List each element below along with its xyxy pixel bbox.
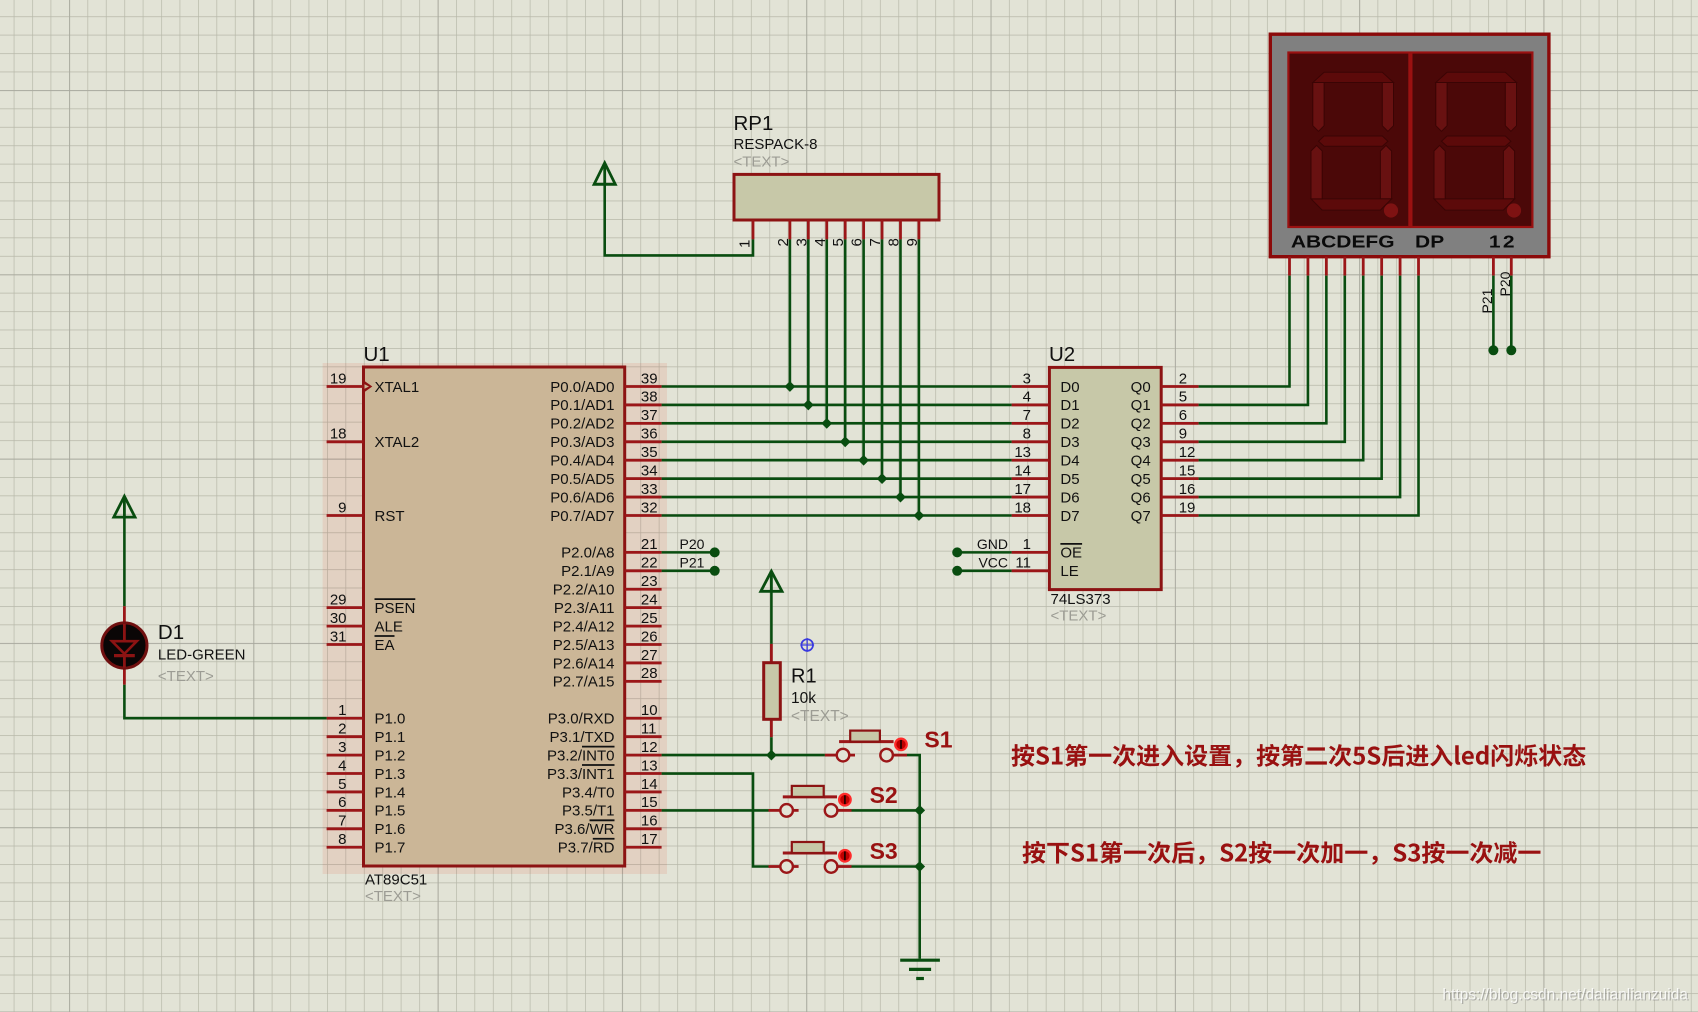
display pin E [1362,257,1365,276]
svg-text:1: 1 [737,240,754,248]
U2 pin 16 Q6 [1131,481,1199,507]
svg-text:GND: GND [977,536,1008,552]
svg-text:RESPACK-8: RESPACK-8 [734,136,818,153]
U1 pin 10 P3.0/RXD [548,702,662,728]
junction P0.6 [895,492,906,503]
U1 pin 19 XTAL1 [327,370,420,396]
svg-text:5: 5 [1179,389,1187,406]
svg-text:P1.2: P1.2 [375,747,406,764]
U2 pin 5 Q1 [1131,389,1199,415]
svg-text:18: 18 [1014,499,1031,516]
U1 pin 37 P0.2/AD2 [550,407,661,433]
svg-text:3: 3 [338,739,346,756]
svg-text:7: 7 [338,813,346,830]
svg-text:<TEXT>: <TEXT> [1051,608,1107,625]
svg-text:24: 24 [641,591,658,608]
wire U2 Q7 to display segment [1199,276,1419,516]
U2 pin 14 D5 [1012,462,1080,488]
U1 pin 30 ALE [327,610,403,636]
svg-text:1: 1 [338,702,346,719]
junction S3/rail [914,861,925,872]
wire U2 Q1 to display segment [1199,276,1308,405]
svg-text:D6: D6 [1060,489,1079,506]
svg-text:Q0: Q0 [1131,379,1151,396]
U1 pin 7 P1.6 [327,813,406,839]
svg-text:U1: U1 [364,343,390,366]
U2 pin 19 Q7 [1131,499,1199,525]
svg-text:U2: U2 [1049,343,1075,366]
U1 pin 16 P3.6/WR [554,813,661,839]
svg-text:11: 11 [1015,555,1031,572]
wire RP1 pin 6 to P0.4 bus [862,239,865,460]
svg-text:Q4: Q4 [1131,453,1151,470]
net GND terminal to U2 OE [952,536,1011,557]
svg-text:PSEN: PSEN [375,600,416,617]
svg-text:P3.1/TXD: P3.1/TXD [549,729,614,746]
wire power to D1 [123,517,126,606]
U2 pin 13 D4 [1012,444,1080,470]
svg-text:3: 3 [1023,370,1031,387]
svg-text:S1: S1 [924,727,952,753]
svg-text:<TEXT>: <TEXT> [365,888,421,905]
display pin F [1380,257,1383,276]
wire D1 to U1 P1.0 [124,685,326,719]
svg-text:P20: P20 [680,536,705,552]
svg-text:<TEXT>: <TEXT> [734,154,790,171]
wire U1 P3.3 to S3 [662,774,769,867]
wire S1 to ground rail [907,755,920,959]
LED D1 LED-GREEN [102,623,147,668]
svg-text:12: 12 [1179,444,1196,461]
U2 pin 18 D7 [1012,499,1080,525]
origin marker [800,638,814,652]
svg-text:Q5: Q5 [1131,471,1151,488]
U1 pin 23 P2.2/A10 [553,573,662,599]
net P21 wire at display [1479,276,1499,356]
svg-text:6: 6 [338,794,346,811]
svg-text:S3: S3 [870,838,898,864]
svg-text:17: 17 [641,831,658,848]
svg-text:6: 6 [1179,407,1187,424]
U1 pin 8 P1.7 [327,831,406,857]
display digit 1 [1288,53,1409,228]
wire RP1 pin 8 to P0.6 bus [899,239,902,497]
7-segment display body [1270,34,1549,257]
U1 pin 9 RST [327,499,405,525]
wire P0.5 from U1 to U2 D5 [662,477,1012,480]
svg-text:DP: DP [1415,233,1444,252]
U1 pin 5 P1.4 [327,776,406,802]
svg-text:27: 27 [641,647,658,664]
U1 pin 15 P3.5/T1 [562,794,662,820]
svg-text:P3.3/INT1: P3.3/INT1 [547,766,615,783]
junction S2/rail [914,805,925,816]
wire P0.3 from U1 to U2 D3 [662,440,1012,443]
ground [900,960,940,978]
svg-text:P2.5/A13: P2.5/A13 [553,637,615,654]
svg-text:P20: P20 [1497,271,1513,296]
junction P0.5 [877,473,888,484]
display pin D [1343,257,1346,276]
wire U2 Q6 to display segment [1199,276,1400,497]
U1 pin 36 P0.3/AD3 [550,426,661,452]
svg-text:4: 4 [1023,389,1031,406]
svg-text:35: 35 [641,444,658,461]
U1 pin 22 P2.1/A9 [561,555,661,581]
display pin C [1325,257,1328,276]
U2 pin 8 D3 [1012,426,1080,452]
svg-text:23: 23 [641,573,658,590]
svg-text:P3.5/T1: P3.5/T1 [562,803,615,820]
svg-text:R1: R1 [791,666,817,688]
wire U2 Q2 to display segment [1199,276,1327,424]
svg-text:12: 12 [1489,233,1517,252]
svg-text:31: 31 [330,628,347,645]
svg-text:Q3: Q3 [1131,434,1151,451]
switch S3 [769,842,852,873]
svg-text:Q6: Q6 [1131,489,1151,506]
RP1 pin 2 [789,220,792,239]
svg-text:P3.0/RXD: P3.0/RXD [548,711,615,728]
wire power to R1 [770,591,773,644]
power symbol near RP1 [594,163,615,184]
U1 pin 1 P1.0 [327,702,406,728]
U1 pin 13 P3.3/INT1 [547,757,662,783]
LED D1 leads [123,606,126,685]
net P20 wire at display [1497,271,1517,355]
wire U1 P3.5 to S2 [662,809,769,812]
svg-text:13: 13 [1014,444,1031,461]
svg-text:ABCDEFG: ABCDEFG [1291,233,1395,252]
svg-text:P0.7/AD7: P0.7/AD7 [550,508,614,525]
wire S2 to ground rail [852,809,920,812]
svg-text:38: 38 [641,389,658,406]
latch U2 74LS373 body [1049,367,1161,589]
wire S3 to ground rail [852,865,920,868]
wire P0.0 from U1 to U2 D0 [662,385,1012,388]
display digit 2 [1411,53,1532,228]
svg-text:P2.1/A9: P2.1/A9 [561,563,614,580]
wire RP1 pin 3 to P0.1 bus [807,239,810,405]
display pin 2 [1510,257,1513,276]
svg-text:18: 18 [330,426,347,443]
wire RP1 pin 2 to P0.0 bus [789,239,792,386]
svg-text:XTAL1: XTAL1 [375,379,420,396]
svg-text:P0.6/AD6: P0.6/AD6 [550,489,614,506]
svg-text:13: 13 [641,757,658,774]
svg-text:34: 34 [641,462,658,479]
svg-text:P1.3: P1.3 [375,766,406,783]
svg-text:74LS373: 74LS373 [1051,591,1111,608]
U2 pin 9 Q3 [1131,426,1199,452]
svg-text:S2: S2 [870,782,898,808]
svg-text:P0.3/AD3: P0.3/AD3 [550,434,614,451]
svg-text:10k: 10k [791,690,816,707]
svg-text:16: 16 [1179,481,1196,498]
U2 pin 15 Q5 [1131,462,1199,488]
U1 pin 35 P0.4/AD4 [550,444,661,470]
svg-text:22: 22 [641,555,658,572]
U1 pin 6 P1.5 [327,794,406,820]
display pin A [1288,257,1291,276]
U1 pin 33 P0.6/AD6 [550,481,661,507]
U2 pin 7 D2 [1012,407,1080,433]
RP1 pin 6 [862,220,865,239]
watermark [1442,987,1689,1005]
wire RP1 pin 7 to P0.5 bus [881,239,884,478]
U1 pin 34 P0.5/AD5 [550,462,661,488]
svg-text:P1.1: P1.1 [375,729,406,746]
svg-text:17: 17 [1014,481,1031,498]
svg-text:D2: D2 [1060,416,1079,433]
U2 pin 3 D0 [1012,370,1080,396]
wire RP1 pin 9 to P0.7 bus [918,239,921,515]
svg-text:15: 15 [1179,462,1196,479]
svg-text:10: 10 [641,702,658,719]
junction P0.2 [821,418,832,429]
svg-text:P1.5: P1.5 [375,803,406,820]
svg-text:8: 8 [1023,426,1031,443]
RP1 pin 5 [844,220,847,239]
microcontroller U1 AT89C51 body [364,367,625,866]
power symbol above D1 [114,496,135,517]
svg-text:P2.3/A11: P2.3/A11 [554,600,615,617]
svg-text:9: 9 [1179,426,1187,443]
display pin 1 [1492,257,1495,276]
display pin B [1307,257,1310,276]
svg-text:19: 19 [1179,499,1196,516]
U2 pin 1 OE [1012,536,1083,562]
svg-text:D1: D1 [1060,397,1079,414]
switch S2 [769,786,852,817]
svg-text:D1: D1 [158,621,184,644]
junction P0.1 [803,400,814,411]
svg-text:11: 11 [641,720,657,737]
U1 pin 14 P3.4/T0 [562,776,662,802]
wire U2 Q4 to display segment [1199,276,1364,461]
svg-text:14: 14 [641,776,658,793]
svg-text:7: 7 [1023,407,1031,424]
switch S1 [825,731,907,762]
U1 pin 21 P2.0/A8 [561,536,661,562]
svg-text:D0: D0 [1060,379,1079,396]
svg-text:P2.0/A8: P2.0/A8 [561,545,614,562]
op-amp U1 highlight halo [323,363,667,874]
svg-text:Q1: Q1 [1131,397,1151,414]
svg-text:P2.2/A10: P2.2/A10 [553,582,615,599]
U1 pin 18 XTAL2 [327,426,420,452]
junction P0.3 [840,436,851,447]
wire U2 Q5 to display segment [1199,276,1382,479]
display pin DP [1417,257,1420,276]
U2 pin 4 D1 [1012,389,1080,415]
svg-text:36: 36 [641,426,658,443]
junction R1/S1 [766,750,777,761]
svg-text:ALE: ALE [375,618,403,635]
wire P0.6 from U1 to U2 D6 [662,496,1012,499]
U1 pin 2 P1.1 [327,720,406,746]
wire P0.7 from U1 to U2 D7 [662,514,1012,517]
svg-text:16: 16 [641,813,658,830]
svg-text:P0.0/AD0: P0.0/AD0 [550,379,614,396]
net P20 wire from U1 pin 21 [662,536,720,557]
U1 pin 38 P0.1/AD1 [550,389,661,415]
svg-text:Q7: Q7 [1131,508,1151,525]
wire P0.2 from U1 to U2 D2 [662,422,1012,425]
RP1 pin 4 [825,220,828,239]
svg-text:1: 1 [1023,536,1031,553]
svg-text:P3.2/INT0: P3.2/INT0 [547,747,615,764]
U1 pin 24 P2.3/A11 [554,591,662,617]
svg-text:XTAL2: XTAL2 [375,434,420,451]
U1 pin 4 P1.3 [327,757,406,783]
U1 pin 3 P1.2 [327,739,406,765]
net VCC terminal to U2 LE [952,555,1011,576]
RP1 pin 1 [752,220,755,239]
svg-text:P21: P21 [1479,288,1495,313]
U1 pin 26 P2.5/A13 [553,628,662,654]
svg-text:33: 33 [641,481,658,498]
U1 pin 39 P0.0/AD0 [550,370,661,396]
svg-text:P1.4: P1.4 [375,784,406,801]
svg-text:AT89C51: AT89C51 [365,872,427,889]
RP1 pin 8 [899,220,902,239]
U1 pin 12 P3.2/INT0 [547,739,662,765]
U2 pin 11 LE [1012,555,1079,581]
svg-text:P1.7: P1.7 [375,840,406,857]
wire U1 P3.2 to S1 [662,754,825,757]
svg-text:RST: RST [375,508,405,525]
U2 pin 12 Q4 [1131,444,1199,470]
annotation text line 1 [1012,744,1586,768]
svg-text:P2.7/A15: P2.7/A15 [553,674,615,691]
svg-text:P0.2/AD2: P0.2/AD2 [550,416,614,433]
U1 pin 25 P2.4/A12 [553,610,662,636]
junction P0.7 [914,510,925,521]
svg-text:21: 21 [641,536,658,553]
U2 pin 17 D6 [1012,481,1080,507]
svg-text:<TEXT>: <TEXT> [791,708,849,725]
svg-text:OE: OE [1060,545,1082,562]
RP1 pin 3 [807,220,810,239]
svg-text:P2.6/A14: P2.6/A14 [553,655,615,672]
annotation text line 2 [1023,841,1541,865]
wire U2 Q3 to display segment [1199,276,1345,442]
RP1 pin 9 [918,220,921,239]
svg-text:2: 2 [338,720,346,737]
svg-text:LE: LE [1060,563,1078,580]
wire RP1 pin 4 to P0.2 bus [825,239,828,423]
power symbol above R1 [761,571,782,591]
svg-text:26: 26 [641,628,658,645]
U1 XTAL1 clock input marker [364,381,372,392]
svg-text:RP1: RP1 [734,112,774,135]
svg-text:25: 25 [641,610,658,627]
svg-text:29: 29 [330,591,347,608]
junction P0.4 [858,455,869,466]
svg-text:19: 19 [330,370,347,387]
svg-text:P3.6/WR: P3.6/WR [554,821,614,838]
RP1 pin 7 [881,220,884,239]
U1 pin 11 P3.1/TXD [549,720,661,746]
wire RP1 pin1 to power [605,184,753,255]
svg-text:EA: EA [375,637,395,654]
svg-text:28: 28 [641,665,658,682]
svg-text:37: 37 [641,407,658,424]
wire P0.4 from U1 to U2 D4 [662,459,1012,462]
U1 pin 28 P2.7/A15 [553,665,662,691]
display segment pin letters [1291,233,1517,252]
svg-text:P0.5/AD5: P0.5/AD5 [550,471,614,488]
svg-text:4: 4 [338,757,346,774]
U2 pin 2 Q0 [1131,370,1199,396]
svg-text:https://blog.csdn.net/dalianli: https://blog.csdn.net/dalianlianzuida [1442,987,1688,1004]
svg-text:P2.4/A12: P2.4/A12 [553,618,615,635]
display pin G [1399,257,1402,276]
U2 pin 6 Q2 [1131,407,1199,433]
svg-text:LED-GREEN: LED-GREEN [158,647,246,664]
svg-text:<TEXT>: <TEXT> [158,668,214,685]
svg-text:VCC: VCC [978,555,1008,571]
U1 pin 32 P0.7/AD7 [550,499,661,525]
resistor R1 leads [770,644,773,737]
svg-text:15: 15 [641,794,658,811]
svg-text:D4: D4 [1060,453,1079,470]
wire P0.1 from U1 to U2 D1 [662,404,1012,407]
resistor pack RP1 RESPACK-8 body [734,174,939,220]
svg-text:P3.7/RD: P3.7/RD [558,840,615,857]
svg-text:P1.6: P1.6 [375,821,406,838]
svg-text:P0.1/AD1: P0.1/AD1 [550,397,614,414]
svg-text:30: 30 [330,610,347,627]
svg-text:D3: D3 [1060,434,1079,451]
net P21 wire from U1 pin 22 [662,555,720,576]
wire U2 Q0 to display segment [1199,276,1290,387]
junction P0.0 [785,381,796,392]
U1 pin 27 P2.6/A14 [553,647,662,673]
resistor R1 10k body [764,663,781,720]
svg-text:D7: D7 [1060,508,1079,525]
svg-text:9: 9 [338,499,346,516]
svg-text:39: 39 [641,370,658,387]
wire RP1 pin 5 to P0.3 bus [844,239,847,441]
svg-text:2: 2 [1179,370,1187,387]
svg-text:Q2: Q2 [1131,416,1151,433]
U1 pin 31 EA [327,628,395,654]
svg-text:D5: D5 [1060,471,1079,488]
U1 pin 17 P3.7/RD [558,831,662,857]
svg-text:5: 5 [338,776,346,793]
svg-text:12: 12 [641,739,658,756]
svg-text:32: 32 [641,499,658,516]
svg-text:P0.4/AD4: P0.4/AD4 [550,453,614,470]
svg-text:P21: P21 [680,555,705,571]
svg-text:8: 8 [338,831,346,848]
wire R1 to S1 net [770,737,773,755]
svg-text:14: 14 [1014,462,1031,479]
U1 pin 29 PSEN [327,591,416,617]
svg-text:P3.4/T0: P3.4/T0 [562,784,615,801]
svg-text:P1.0: P1.0 [375,711,406,728]
